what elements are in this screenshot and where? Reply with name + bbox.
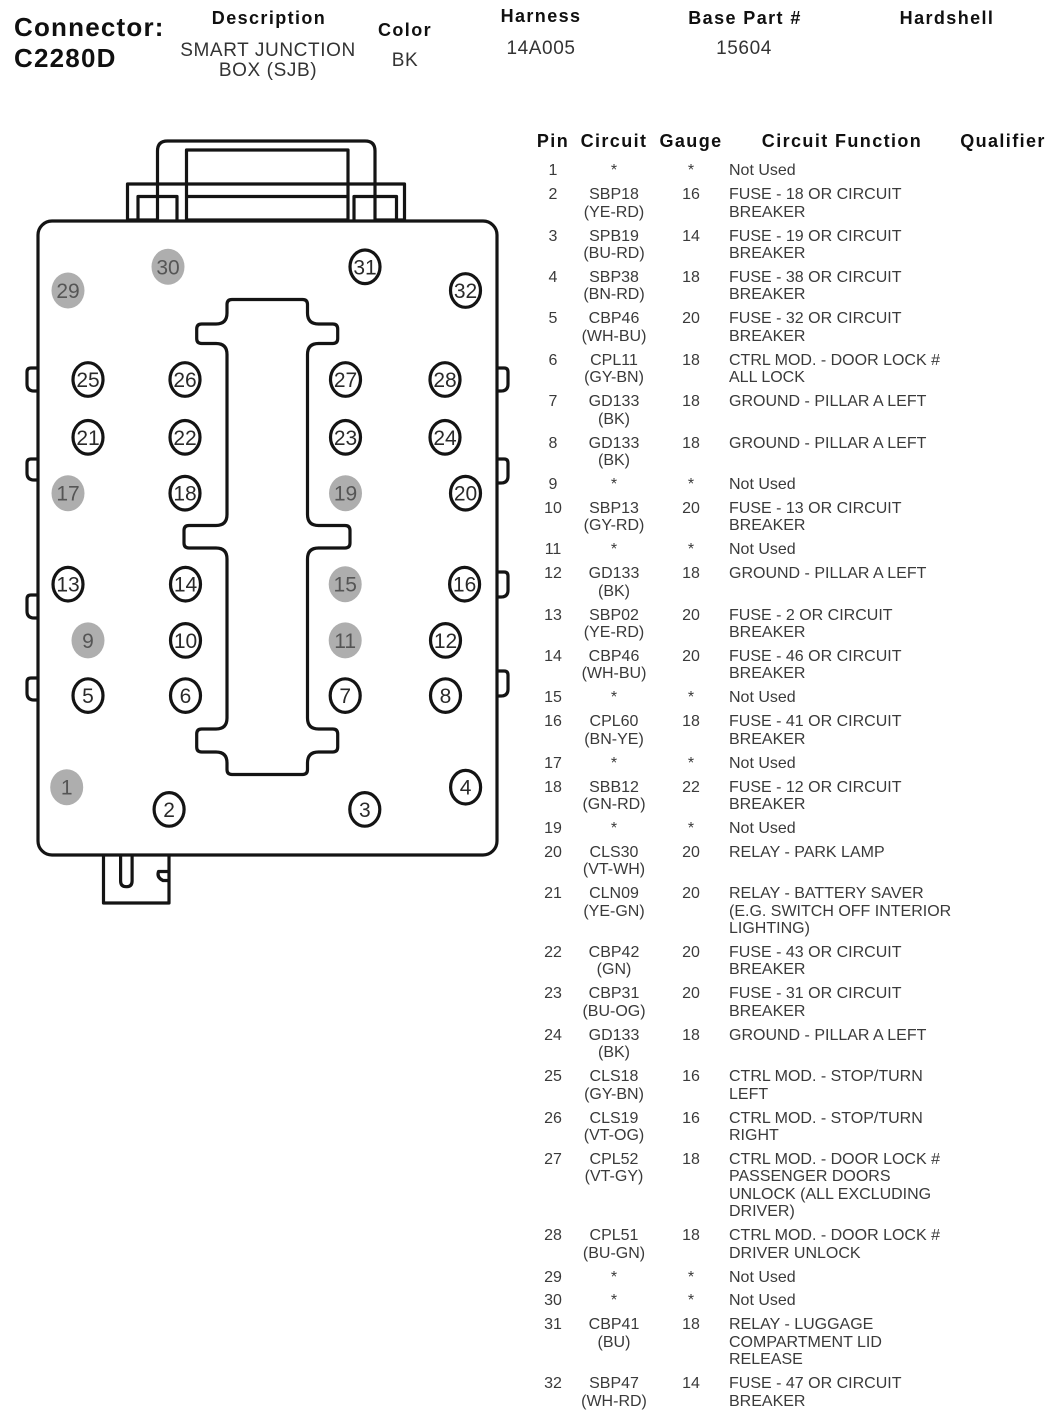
svg-text:31: 31 (353, 256, 376, 279)
pin 14 (171, 567, 201, 601)
connector body (38, 221, 497, 855)
table row pin 7 (530, 393, 1056, 428)
pin 13 (53, 567, 83, 601)
table row pin 15 (530, 689, 1056, 706)
svg-text:8: 8 (440, 685, 452, 708)
svg-text:5: 5 (82, 685, 94, 708)
table row pin 6 (530, 352, 1056, 387)
pin 1 (50, 769, 83, 805)
header label Hardshell (900, 9, 995, 27)
pin 18 (170, 476, 200, 510)
header label Color (378, 21, 432, 39)
pin 27 (331, 363, 361, 397)
pin 8 (431, 679, 461, 713)
table row pin 30 (530, 1292, 1056, 1309)
table row pin 10 (530, 500, 1056, 535)
table row pin 22 (530, 944, 1056, 979)
right side lug 1 (497, 368, 508, 391)
svg-text:26: 26 (173, 369, 196, 392)
table row pin 9 (530, 476, 1056, 493)
svg-text:13: 13 (56, 574, 79, 597)
right side lug 2 (497, 459, 508, 483)
svg-text:3: 3 (359, 799, 371, 822)
pin 28 (430, 363, 460, 397)
table row pin 17 (530, 755, 1056, 772)
svg-text:11: 11 (334, 630, 356, 653)
header value 15604 (716, 39, 772, 58)
pin 3 (350, 793, 380, 827)
pin 9 (72, 622, 105, 658)
table row pin 13 (530, 607, 1056, 642)
top latch outer flange (128, 184, 405, 220)
top latch tall tab (158, 141, 376, 220)
svg-text:30: 30 (156, 256, 179, 279)
table row pin 20 (530, 844, 1056, 879)
svg-text:17: 17 (56, 483, 79, 506)
top latch flange top edge crossing (158, 182, 376, 185)
pin 26 (170, 363, 200, 397)
svg-text:29: 29 (56, 280, 79, 303)
svg-text:22: 22 (173, 427, 196, 450)
pin 30 (152, 249, 185, 285)
table row pin 19 (530, 820, 1056, 837)
table row pin 14 (530, 648, 1056, 683)
svg-text:12: 12 (434, 630, 457, 653)
header value 14A005 (506, 39, 575, 58)
table row pin 26 (530, 1110, 1056, 1145)
svg-text:4: 4 (460, 777, 472, 800)
pin 23 (331, 421, 361, 455)
top latch left box (138, 197, 177, 221)
pin 16 (450, 567, 480, 601)
bottom tab slot (121, 855, 133, 887)
header value SMART JUNCTION BOX (SJB) (180, 41, 356, 82)
header label Base Part # (688, 9, 801, 27)
svg-text:7: 7 (339, 685, 351, 708)
table row pin 11 (530, 541, 1056, 558)
svg-text:19: 19 (334, 483, 357, 506)
pin 25 (73, 363, 103, 397)
pin 21 (73, 421, 103, 455)
pin 5 (73, 679, 103, 713)
table row pin 18 (530, 779, 1056, 814)
left side lug 4 (27, 678, 38, 700)
header value BK (392, 51, 419, 70)
svg-text:21: 21 (76, 427, 99, 450)
pin 4 (451, 770, 481, 804)
table row pin 16 (530, 713, 1056, 748)
header label Connector: (14, 12, 165, 42)
table row pin 3 (530, 228, 1056, 263)
left side lug 3 (27, 595, 38, 618)
pin 32 (451, 274, 481, 308)
svg-text:15: 15 (334, 574, 357, 597)
table row pin 21 (530, 885, 1056, 937)
header label Description (212, 9, 326, 27)
pin 20 (451, 476, 481, 510)
pin 10 (171, 624, 201, 658)
top latch right box (354, 197, 397, 221)
svg-text:6: 6 (180, 685, 192, 708)
pin table body (530, 162, 1056, 1416)
svg-text:10: 10 (174, 630, 197, 653)
svg-text:14: 14 (174, 574, 198, 597)
pin 2 (154, 793, 184, 827)
svg-text:9: 9 (82, 630, 94, 653)
svg-text:32: 32 (454, 280, 477, 303)
svg-text:28: 28 (433, 369, 456, 392)
table row pin 4 (530, 269, 1056, 304)
table row pin 28 (530, 1227, 1056, 1262)
table row pin 23 (530, 985, 1056, 1020)
svg-text:20: 20 (454, 483, 477, 506)
header value C2280D (14, 43, 117, 73)
table row pin 24 (530, 1027, 1056, 1062)
svg-text:2: 2 (163, 799, 175, 822)
table row pin 32 (530, 1375, 1056, 1410)
table row pin 31 (530, 1316, 1056, 1368)
pin 6 (171, 679, 201, 713)
table row pin 1 (530, 162, 1056, 179)
svg-text:23: 23 (334, 427, 357, 450)
pin 19 (329, 475, 362, 511)
top latch inner rect (187, 150, 349, 220)
table row pin 8 (530, 435, 1056, 470)
pin table header (537, 132, 569, 150)
pin 12 (431, 624, 461, 658)
center keyway I-beam (184, 300, 350, 775)
table row pin 27 (530, 1151, 1056, 1221)
header label Harness (501, 7, 582, 25)
pin 24 (430, 421, 460, 455)
right side lug 4 (497, 671, 508, 696)
bottom tab (104, 855, 170, 903)
pin 15 (329, 566, 362, 602)
table row pin 5 (530, 310, 1056, 345)
bottom tab hook (158, 872, 169, 881)
svg-text:25: 25 (76, 369, 99, 392)
connector drawing (0, 0, 530, 940)
pin 22 (170, 421, 200, 455)
top latch inner crossbar (187, 195, 349, 198)
pin 17 (52, 475, 85, 511)
svg-text:1: 1 (61, 777, 73, 800)
table row pin 2 (530, 186, 1056, 221)
svg-text:16: 16 (453, 574, 476, 597)
pin 7 (330, 679, 360, 713)
table row pin 25 (530, 1068, 1056, 1103)
pin 31 (350, 250, 380, 284)
svg-text:24: 24 (433, 427, 457, 450)
table row pin 12 (530, 565, 1056, 600)
pin 11 (329, 622, 362, 658)
left side lug 1 (27, 368, 38, 391)
pin 29 (52, 273, 85, 309)
svg-text:18: 18 (173, 483, 196, 506)
left side lug 2 (27, 459, 38, 480)
right side lug 3 (497, 572, 508, 597)
table row pin 29 (530, 1269, 1056, 1286)
svg-text:27: 27 (334, 369, 357, 392)
